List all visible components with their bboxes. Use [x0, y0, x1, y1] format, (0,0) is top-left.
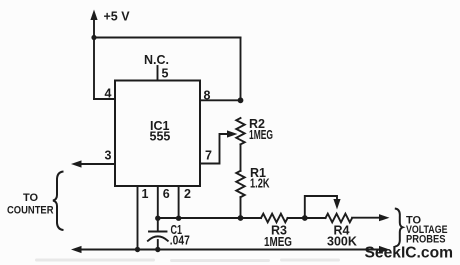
- svg-text:555: 555: [150, 130, 171, 144]
- svg-text:1MEG: 1MEG: [249, 128, 273, 142]
- svg-text:1: 1: [142, 187, 149, 201]
- svg-text:+5 V: +5 V: [104, 10, 131, 24]
- svg-text:8: 8: [204, 88, 211, 102]
- svg-text:3: 3: [105, 149, 112, 163]
- svg-text:6: 6: [163, 187, 170, 201]
- svg-text:TO: TO: [23, 192, 39, 204]
- svg-text:.047: .047: [170, 234, 190, 248]
- svg-text:5: 5: [162, 67, 169, 81]
- svg-text:1MEG: 1MEG: [264, 235, 292, 249]
- svg-text:4: 4: [105, 87, 112, 101]
- svg-text:1.2K: 1.2K: [250, 176, 270, 190]
- svg-text:7: 7: [205, 149, 212, 163]
- svg-text:2: 2: [184, 187, 191, 201]
- svg-text:300K: 300K: [327, 235, 357, 249]
- svg-text:COUNTER: COUNTER: [7, 205, 54, 217]
- svg-text:N.C.: N.C.: [144, 53, 169, 67]
- svg-text:SeekIC.com: SeekIC.com: [365, 245, 454, 262]
